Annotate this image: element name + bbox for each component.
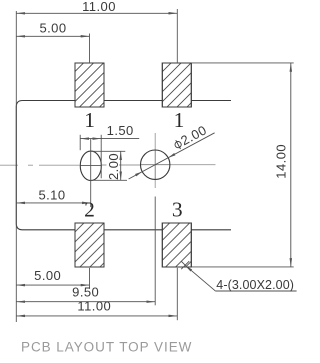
svg-text:1: 1	[84, 108, 95, 132]
svg-text:5.10: 5.10	[38, 188, 65, 203]
svg-text:5.00: 5.00	[34, 268, 61, 283]
svg-text:9.50: 9.50	[72, 285, 99, 300]
svg-text:2: 2	[84, 198, 95, 222]
svg-text:3: 3	[172, 198, 183, 222]
svg-text:1.50: 1.50	[107, 123, 134, 138]
svg-text:1: 1	[174, 108, 185, 132]
svg-text:11.00: 11.00	[82, 0, 116, 14]
svg-text:14.00: 14.00	[274, 144, 289, 179]
svg-text:2.00: 2.00	[106, 153, 121, 180]
svg-text:4-(3.00X2.00): 4-(3.00X2.00)	[216, 278, 294, 292]
svg-text:5.00: 5.00	[39, 21, 66, 36]
svg-text:PCB LAYOUT TOP VIEW: PCB LAYOUT TOP VIEW	[21, 339, 192, 354]
svg-text:11.00: 11.00	[77, 299, 111, 314]
